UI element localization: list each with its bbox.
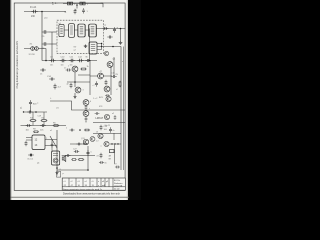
wire y144 right (110, 143, 121, 145)
svg-text:Ovaj dokument je vlasnistvo se: Ovaj dokument je vlasnistvo servisa RS (15, 41, 19, 89)
svg-text:10n: 10n (61, 64, 64, 66)
svg-text:d2: d2 (67, 84, 69, 86)
node A junction (41, 11, 43, 13)
wire U2 stubs right (97, 44, 102, 50)
wire h y127 (21, 125, 49, 127)
transistor Q5 (104, 86, 110, 92)
scan black band left (0, 0, 11, 200)
capacitor C27 (74, 150, 79, 153)
svg-text:n3: n3 (96, 132, 98, 134)
resistor R3 (30, 120, 37, 122)
capacitor C17 (95, 81, 98, 86)
wire mid h (67, 75, 90, 82)
svg-text:10u 25: 10u 25 (105, 125, 111, 127)
capacitor C8 polarized (113, 27, 116, 33)
diode D2 (70, 83, 73, 88)
svg-text:86: 86 (86, 57, 88, 59)
wire Q1 drop (113, 57, 115, 75)
capacitor C33 bottom (99, 161, 104, 164)
wire vert x89.5 (89, 29, 91, 61)
capacitor C20 (26, 124, 32, 127)
capacitor C23 (100, 125, 103, 130)
wire v x112 (110, 66, 112, 95)
svg-text:b: b (102, 136, 103, 138)
junction d2 (114, 143, 115, 144)
resistor R5 (53, 125, 59, 127)
transistor Q4 (98, 73, 104, 79)
label K1 hatch (53, 154, 58, 156)
capacitor C25 (30, 154, 31, 155)
wire top right corner stub (101, 3, 104, 7)
capacitor C29 (115, 166, 120, 169)
relay box K1 (52, 151, 60, 165)
wire right bus second (122, 47, 124, 171)
wire diag (50, 101, 93, 110)
svg-text:(2): (2) (37, 162, 40, 164)
IC U1d (89, 24, 97, 37)
svg-text:c5: c5 (92, 181, 94, 183)
wire U3 left (26, 138, 32, 141)
junction row (79, 129, 81, 131)
IC U1c (78, 24, 85, 37)
ground K1 (55, 172, 58, 175)
junction x57 (56, 167, 58, 169)
wire v x57 (56, 130, 58, 171)
dashed module box U1 area (57, 20, 103, 54)
junction q cluster (74, 81, 76, 83)
svg-text:c9: c9 (115, 164, 117, 166)
transistor Q3 (75, 87, 81, 93)
resistor R9 (78, 159, 84, 161)
wire y144 mid (70, 143, 88, 145)
capacitor C37 (114, 115, 117, 120)
paper background (0, 0, 141, 200)
transistor Q7 (83, 111, 89, 117)
junction x88 (87, 169, 89, 171)
terminal box TB1 (110, 150, 115, 153)
svg-text:5: 5 (91, 152, 92, 154)
svg-text:c8: c8 (97, 155, 99, 157)
svg-text:Downloaded from www.service-ma: Downloaded from www.service-manuals.info… (63, 192, 121, 195)
wire v x114 (113, 133, 116, 164)
ground right (119, 41, 123, 44)
title block table (62, 178, 125, 191)
junction y112 (35, 111, 37, 113)
transistor Q13 (104, 141, 109, 146)
capacitor C18 (29, 100, 32, 106)
wire vert link caps (51, 32, 53, 61)
capacitor C21 (40, 124, 46, 127)
svg-text:c2: c2 (71, 181, 73, 183)
svg-text:servis RR: servis RR (114, 185, 123, 188)
junction U2 pins (101, 43, 102, 44)
small comp below U3 (28, 153, 34, 156)
capacitor C3 (74, 9, 77, 14)
revision box (57, 172, 61, 178)
capacitor C13 (66, 68, 72, 71)
transistor Q1 (107, 62, 113, 68)
transistor Q8 (106, 96, 111, 101)
wire input horizontal (24, 11, 66, 13)
svg-text:1n: 1n (64, 67, 66, 69)
svg-text:1·2: 1·2 (96, 141, 99, 143)
capacitor C36 (95, 112, 100, 115)
page edge shading right (127, 0, 128, 200)
transistor Q11 (83, 139, 89, 145)
capacitor C16 (111, 75, 116, 78)
svg-text:c1: c1 (64, 181, 66, 183)
capacitor C22 (85, 105, 88, 110)
capacitor C4 (82, 8, 85, 13)
wire U3 right pins (45, 140, 57, 146)
wire right vertical drop (120, 29, 122, 42)
wire U3pin down (51, 140, 53, 153)
wire h y170 (57, 169, 88, 171)
junction c34 (83, 143, 84, 144)
wire v x88 (87, 146, 89, 170)
wire v x121 low (120, 123, 122, 171)
svg-text:1 +·: 1 +· (52, 1, 58, 5)
small row: capacitor C30 (69, 129, 74, 132)
wire right of bus (89, 61, 91, 96)
fuse FB2 top (80, 2, 85, 5)
wire h y155 (62, 155, 95, 157)
wire tick below dot (76, 5, 78, 9)
capacitor C32 left (40, 68, 46, 71)
svg-text:1 = 2: 1 = 2 (93, 98, 97, 100)
svg-text:10n: 10n (50, 64, 53, 66)
wire vert from X1 (45, 49, 47, 61)
wire Q4 link (90, 75, 112, 77)
wire C6 to module (48, 43, 57, 45)
scan black band right (128, 0, 141, 200)
svg-text:list 1/2: list 1/2 (114, 188, 119, 191)
transistor Q6 (83, 100, 89, 106)
svg-text:F1 2A: F1 2A (30, 6, 37, 9)
junction U2 pin2 (101, 46, 102, 47)
svg-text:32.768: 32.768 (29, 54, 36, 56)
IC U1a (59, 24, 64, 36)
svg-text:4u: 4u (113, 130, 115, 132)
wire Q3 vert (74, 72, 76, 96)
junction bus left (45, 60, 47, 62)
wire right bus long (120, 47, 122, 123)
small comp x67 (65, 154, 70, 157)
transistor Q1b (104, 51, 109, 56)
wire h y133.5 right (93, 133, 121, 135)
junction bus x89 (89, 60, 91, 62)
IC U3 box (32, 135, 45, 150)
page edge shading left (11, 0, 12, 200)
schematic border frame (14, 3, 125, 190)
capacitor C35 (51, 142, 54, 147)
capacitor C26 (86, 150, 89, 156)
capacitor C28 (100, 153, 103, 158)
wire inside module (65, 29, 89, 31)
wire h y122.5 right (93, 122, 125, 124)
IC U2 (89, 42, 97, 54)
ground module (84, 45, 88, 48)
junction d3 (117, 143, 118, 144)
wire Q7 down (85, 121, 87, 123)
oscillator X1 (24, 47, 46, 51)
svg-text:r21: r21 (56, 106, 59, 109)
capacitor C15 (53, 84, 56, 90)
capacitor C10 (60, 59, 66, 62)
wire v left low (30, 106, 32, 112)
IC U1b (69, 24, 75, 38)
wire diag low (50, 136, 57, 148)
fuse FB1 top (67, 2, 72, 5)
resistor R8 (33, 131, 39, 133)
svg-text:c3: c3 (78, 181, 80, 183)
transistor Q14 left (90, 137, 95, 142)
wire module out right (97, 28, 126, 30)
capacitor C5 (42, 30, 48, 33)
wire stub R3 top (32, 112, 34, 126)
capacitor C6 (42, 42, 48, 45)
capacitor C14 (49, 77, 55, 80)
svg-text:r2: r2 (116, 88, 118, 91)
svg-text:o1: o1 (50, 130, 52, 132)
resistor R10 (71, 159, 77, 161)
resistor R2 (119, 81, 121, 87)
transistor Q9 (104, 114, 109, 119)
fuse F1 (31, 10, 37, 13)
bus capacitor row: wire (42, 60, 97, 62)
junction dot top rail (76, 4, 78, 6)
capacitor C12b (85, 59, 90, 62)
wire vertical bus A (41, 12, 43, 61)
wire C5 to module (48, 31, 57, 33)
terminal dot left (23, 111, 24, 112)
svg-text:Sema napajanja stereo pojacala: Sema napajanja stereo pojacala mod 2c (63, 188, 103, 191)
svg-text:LM317: LM317 (96, 117, 104, 120)
capacitor C24 (109, 127, 112, 132)
svg-text:3: 3 (83, 90, 84, 92)
resistor R4 (41, 120, 48, 122)
capacitor below Q7 (85, 116, 88, 121)
svg-text:0v 0.1: 0v 0.1 (28, 159, 35, 161)
wire h y125 low (48, 125, 66, 127)
wire U2 right (102, 46, 121, 48)
svg-text:g: g (60, 169, 61, 171)
svg-text:BOJ 4c: BOJ 4c (114, 180, 120, 182)
svg-text:n: n (98, 185, 99, 187)
ground Q3 (73, 96, 76, 99)
svg-text:1k: 1k (87, 66, 89, 68)
wire h y112 (24, 111, 48, 113)
junction d1 (111, 143, 112, 144)
wire top rail (63, 3, 103, 5)
capacitor C9 (49, 59, 55, 62)
svg-text:u: u (98, 181, 99, 183)
capacitor C7 (103, 27, 109, 30)
capacitor C19 (27, 110, 33, 113)
wire h y110 right (93, 109, 125, 111)
svg-text:10n: 10n (70, 64, 73, 66)
speaker SP1 (62, 156, 66, 162)
capacitor C34 (76, 143, 81, 146)
junction U2 out (112, 46, 114, 48)
svg-text:c7: c7 (93, 85, 95, 87)
capacitor C31 left of U3 (25, 141, 28, 146)
svg-text:o: o (101, 145, 102, 147)
transistor Q10 (53, 158, 58, 163)
wire stub R4 (43, 112, 45, 126)
transistor Q12 (98, 133, 103, 138)
svg-text:c4: c4 (85, 181, 87, 183)
capacitor small low (105, 94, 110, 97)
U2 hatch (91, 45, 95, 51)
svg-text:c: c (89, 108, 90, 110)
capacitor C12 (77, 59, 83, 62)
junction right rail (120, 28, 122, 30)
resistor R1 (80, 68, 86, 70)
svg-text:2: 2 (68, 65, 69, 67)
diode D3 (105, 80, 108, 85)
resistor R7 (84, 129, 90, 131)
svg-text:o2: o2 (112, 113, 114, 115)
svg-text:1: 1 (66, 128, 67, 130)
scan bottom edge line (11, 196, 129, 198)
diode D1 (107, 36, 112, 39)
capacitor C11 (69, 59, 75, 62)
svg-text:05: 05 (105, 163, 107, 165)
transistor Q2 (72, 66, 78, 72)
